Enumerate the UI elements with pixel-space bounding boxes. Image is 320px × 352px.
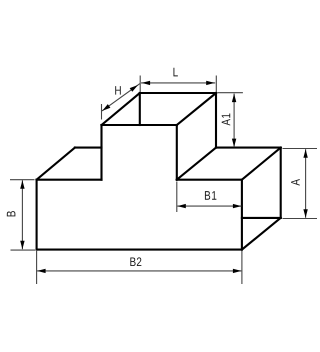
stem top back edge [140,92,216,94]
right opening back vertical edge [280,148,282,218]
stem top front edge [102,124,177,126]
bar front right edge [241,180,243,250]
B2 arrow right [233,269,242,273]
H arrow upper right [130,85,138,92]
stem top left depth edge [102,93,140,125]
stem front right edge [176,125,178,180]
A1 arrow down [232,139,236,148]
L/H shared extension line [139,76,141,93]
B2 extension line left [36,251,38,284]
B1 arrow right [233,204,242,208]
label A1 [222,114,231,126]
label B2 [130,257,141,266]
A extension line top [283,148,318,150]
bar front bottom edge [37,249,242,251]
A arrow down [303,209,307,218]
L dimension line [141,82,215,84]
label A [291,179,300,186]
stem right wall base depth edge [177,148,216,180]
H extension line left [101,104,103,120]
L arrow left [142,81,151,85]
stem top right depth edge [177,93,216,125]
A extension line bottom [283,218,318,220]
B arrow down [20,241,24,250]
B extension line bottom [11,249,36,251]
left wing top depth edge [37,148,75,180]
bar front top edge right segment [177,179,242,181]
B2 dimension line [37,270,241,272]
stem front left edge [100,125,102,180]
label H [115,86,121,95]
B dimension line [21,180,23,249]
B2 arrow left [37,269,46,273]
A arrow up [303,149,307,158]
left wing top back edge [75,147,102,149]
B extension line top [10,179,35,181]
bar front top edge left segment [37,179,102,181]
A1 dimension line [233,94,235,148]
A1 extension line top [217,92,243,94]
label B1 [205,191,216,200]
bar top back edge right [216,147,281,149]
B2 extension line right [241,251,243,284]
stem back right vertical edge [215,93,217,148]
B1 dimension line [177,205,241,207]
bar front face left edge [36,180,38,250]
L extension line right [215,76,217,93]
right opening top depth edge [242,148,281,180]
A dimension line [305,149,307,218]
L arrow right [206,81,215,85]
right opening inner bottom edge [242,217,281,219]
B arrow up [20,180,24,189]
H arrow lower left [102,104,110,111]
right opening bottom depth edge [242,218,281,250]
label L [173,68,177,77]
label B [7,211,16,216]
A1 arrow up [232,94,236,103]
B1 arrow left [177,204,186,208]
H dimension line [102,84,140,111]
B1 extension line left [176,182,178,213]
stem opening inner vertical edge [139,93,141,125]
